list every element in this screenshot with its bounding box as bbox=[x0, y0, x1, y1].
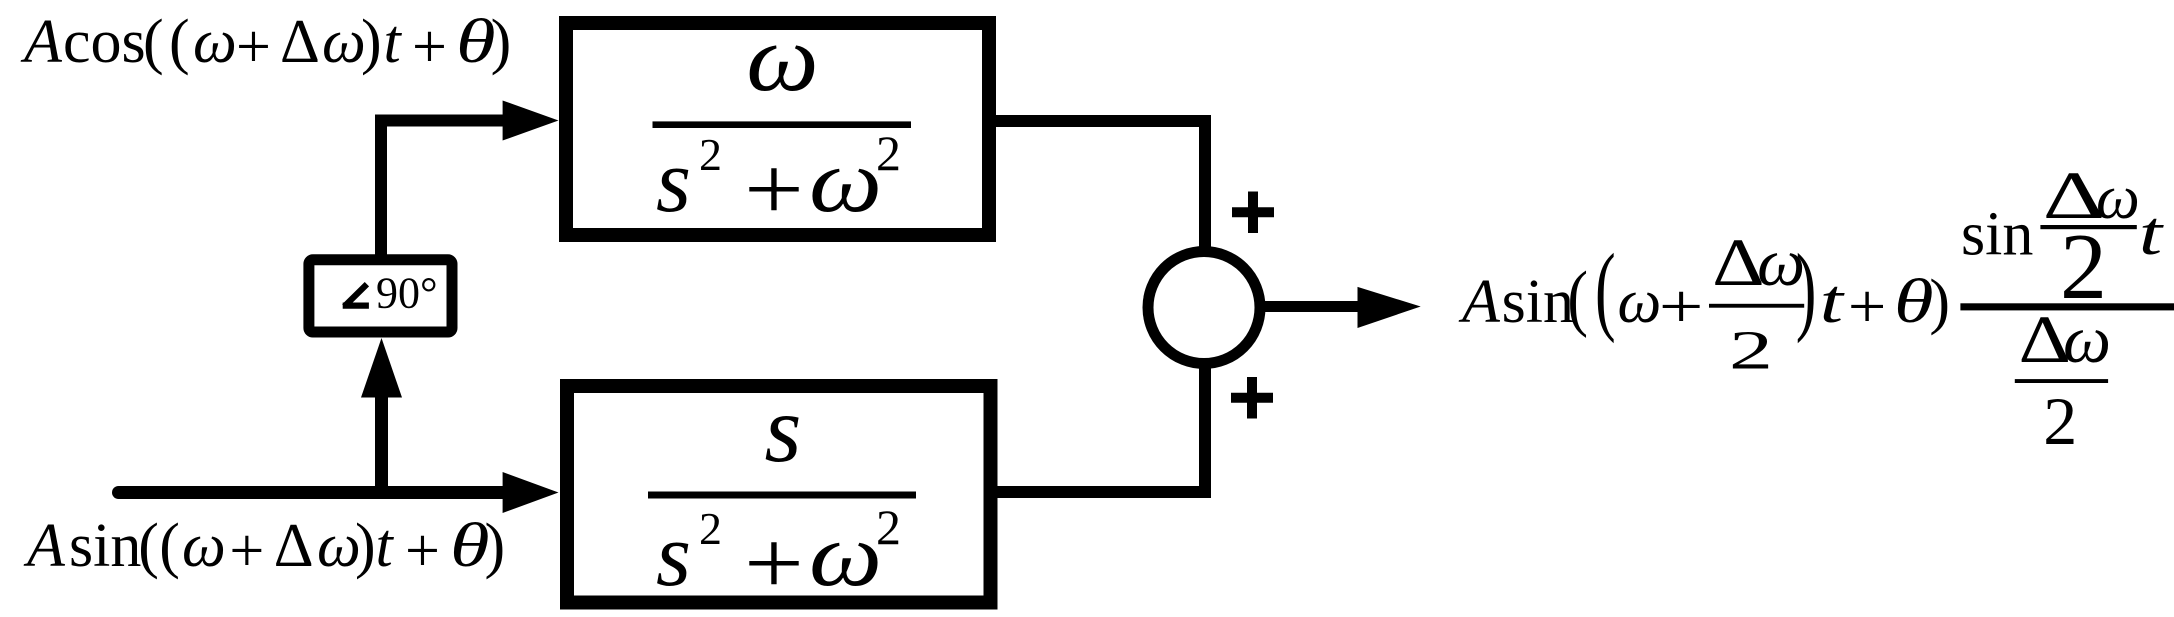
svg-text:(: ( bbox=[1567, 256, 1588, 339]
svg-text:ω: ω bbox=[809, 131, 882, 230]
svg-text:2: 2 bbox=[2043, 383, 2077, 459]
denominator small fraction 2 bbox=[2043, 383, 2077, 459]
denominator small fraction dw bbox=[2019, 301, 2112, 377]
wire: top block to summing junction bbox=[996, 121, 1205, 247]
label 90 deg bbox=[376, 269, 438, 318]
arrowhead into top block bbox=[503, 101, 559, 141]
svg-text:2: 2 bbox=[876, 125, 901, 181]
svg-text:): ) bbox=[1796, 233, 1817, 343]
svg-text:ω: ω bbox=[1618, 268, 1662, 336]
svg-text:t: t bbox=[1820, 266, 1845, 335]
G1 numerator omega bbox=[746, 6, 818, 111]
svg-text:Asin: Asin bbox=[1458, 268, 1574, 336]
phase shifter box angle 90 bbox=[309, 260, 452, 332]
G2 numerator s bbox=[765, 376, 802, 482]
svg-text:θ: θ bbox=[1894, 267, 1934, 336]
numerator small fraction 2 bbox=[2060, 215, 2107, 319]
svg-text:+: + bbox=[1659, 273, 1704, 341]
wire: branch up to phase shifter bbox=[375, 397, 388, 493]
G1 denominator s^2+omega^2 bbox=[656, 125, 901, 239]
G1 fraction bar bbox=[653, 121, 912, 128]
svg-text:ω: ω bbox=[746, 6, 818, 111]
arrowhead into phase shifter box bbox=[361, 338, 402, 398]
summing junction circle bbox=[1148, 252, 1260, 364]
block G1: omega/(s^2+omega^2) bbox=[566, 23, 989, 235]
svg-text:θ: θ bbox=[456, 7, 496, 76]
numerator small fraction bar bbox=[2040, 225, 2136, 229]
node: input label A sin((w+dw)t+theta) bbox=[23, 511, 505, 585]
svg-text:): ) bbox=[1929, 268, 1950, 336]
svg-text:ω: ω bbox=[809, 505, 882, 604]
node: output label A sin(( bbox=[1458, 233, 1703, 343]
node: input label A cos((w+dw)t+theta) bbox=[20, 7, 511, 81]
big fraction numerator: sin bbox=[1961, 200, 2033, 268]
numerator t bbox=[2139, 198, 2164, 267]
svg-text:+: + bbox=[744, 513, 804, 613]
plus sign top input bbox=[1232, 192, 1274, 234]
svg-text:+: + bbox=[744, 139, 804, 239]
angle symbol bbox=[343, 284, 369, 306]
wire: bottom input line bbox=[119, 486, 504, 499]
wire: bottom block to summing junction bbox=[990, 368, 1205, 492]
G2 fraction bar bbox=[648, 492, 916, 499]
arrowhead output bbox=[1358, 287, 1421, 328]
svg-text:(: ( bbox=[1595, 233, 1616, 343]
output inline fraction dw numerator bbox=[1712, 224, 1805, 300]
svg-text:t: t bbox=[2139, 198, 2164, 267]
wire: output bbox=[1265, 301, 1358, 312]
output inline fraction bar bbox=[1709, 304, 1804, 308]
output inline fraction denominator 2 bbox=[1729, 320, 1773, 381]
svg-text:+: + bbox=[1848, 273, 1886, 341]
svg-text:2: 2 bbox=[1729, 320, 1773, 381]
svg-text:90°: 90° bbox=[376, 269, 438, 318]
plus sign bottom input bbox=[1231, 377, 1273, 419]
arrowhead into bottom block bbox=[503, 472, 559, 513]
numerator small fraction dw bbox=[2043, 158, 2140, 233]
svg-text:ω: ω bbox=[2063, 301, 2111, 377]
svg-text:θ: θ bbox=[450, 511, 490, 580]
G2 denominator s^2+omega^2 bbox=[656, 499, 901, 613]
wire: phase shifter to top block bbox=[381, 121, 503, 260]
block G2: s/(s^2+omega^2) bbox=[567, 386, 991, 603]
denominator small fraction bar bbox=[2015, 379, 2108, 383]
svg-text:2: 2 bbox=[876, 499, 901, 555]
svg-text:s: s bbox=[765, 376, 802, 482]
svg-text:Asin((ω+Δω)t+): Asin((ω+Δω)t+) bbox=[23, 512, 505, 585]
svg-text:sin: sin bbox=[1961, 200, 2033, 268]
output label )t+theta) bbox=[1796, 233, 1950, 343]
output big fraction bar bbox=[1960, 303, 2174, 310]
svg-text:Acos((ω+Δω)t+): Acos((ω+Δω)t+) bbox=[20, 8, 511, 81]
